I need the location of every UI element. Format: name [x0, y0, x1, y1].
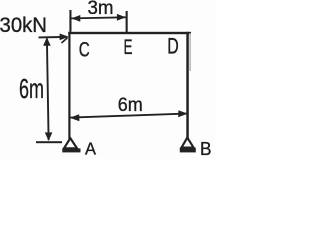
dimension 6m middle left arrowhead: [70, 114, 80, 121]
dimension 6m left bottom tick: [36, 141, 62, 143]
right column D-B: [186, 32, 189, 138]
svg-text:B: B: [200, 138, 212, 159]
support A pin triangle: [64, 138, 77, 148]
svg-text:3m: 3m: [88, 0, 114, 19]
dimension 3m left extension tick: [69, 10, 71, 32]
support A base bar: [62, 148, 80, 152]
load 30kN arrow line: [39, 36, 63, 38]
dimension 3m right extension tick at E: [126, 11, 128, 32]
right column shadow line: [189, 33, 190, 71]
svg-text:30kN: 30kN: [0, 13, 47, 37]
dimension 6m left bottom arrowhead: [45, 132, 53, 141]
dimension 3m line: [72, 17, 126, 18]
left column C-A: [68, 32, 70, 139]
dimension 6m left top arrowhead: [43, 37, 51, 46]
dimension 6m left vertical line: [47, 39, 49, 141]
dimension 6m middle right arrowhead: [178, 110, 187, 117]
top beam C-D: [68, 32, 191, 34]
svg-text:E: E: [124, 35, 133, 59]
support B base bar: [180, 148, 196, 153]
dimension 3m right arrowhead: [117, 14, 126, 21]
load 30kN arrowhead: [60, 34, 69, 41]
svg-text:6m: 6m: [118, 94, 143, 116]
svg-text:6m: 6m: [19, 73, 44, 104]
dimension 3m left arrowhead: [71, 15, 80, 22]
support B pin triangle: [182, 138, 194, 148]
svg-text:C: C: [79, 38, 90, 62]
svg-text:D: D: [167, 34, 179, 59]
dimension 6m middle line: [71, 114, 187, 118]
svg-text:A: A: [85, 139, 96, 159]
